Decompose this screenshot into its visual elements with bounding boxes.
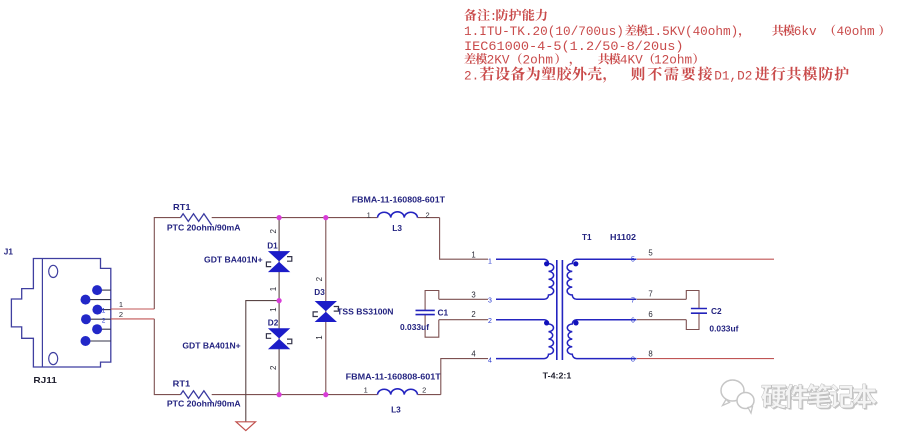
junction A (277, 215, 282, 220)
C1 bottom lead (425, 315, 439, 338)
note line 2: ITU-TK.20 (464, 24, 883, 39)
capacitor C2 (691, 309, 707, 314)
svg-text:H1102: H1102 (610, 233, 636, 242)
svg-text:0.033uf: 0.033uf (709, 323, 738, 333)
svg-text:C2: C2 (711, 306, 722, 316)
T1 core (557, 260, 563, 360)
svg-text:1: 1 (269, 286, 278, 291)
svg-text:6kv: 6kv (794, 24, 817, 39)
C2 top lead (686, 291, 699, 309)
svg-text:6: 6 (648, 310, 652, 319)
svg-text:D1: D1 (267, 241, 278, 250)
svg-text:4: 4 (471, 350, 476, 359)
svg-text:2ohm: 2ohm (523, 52, 553, 67)
svg-text:5: 5 (648, 249, 653, 258)
wire pin2 to net (111, 318, 155, 320)
svg-text:1: 1 (364, 385, 368, 394)
svg-text:1: 1 (119, 300, 123, 309)
svg-text:7: 7 (631, 297, 635, 304)
wire up to top rail (154, 218, 180, 309)
svg-text:1: 1 (471, 251, 475, 260)
T1 polarity dot right-top (573, 261, 578, 266)
svg-text:FBMA-11-160808-601T: FBMA-11-160808-601T (346, 371, 442, 381)
svg-text:1: 1 (488, 258, 492, 265)
svg-text:40ohm: 40ohm (837, 24, 875, 39)
C1 top lead (425, 291, 439, 311)
svg-text:1: 1 (315, 335, 324, 340)
capacitor C1 (416, 310, 435, 314)
wire pin7 out (637, 298, 686, 300)
junction C (277, 298, 282, 303)
svg-text:PTC 20ohm/90mA: PTC 20ohm/90mA (167, 222, 241, 232)
svg-text:T1: T1 (582, 233, 592, 242)
svg-text:2: 2 (119, 310, 123, 319)
T1 polarity dot left-bottom (544, 320, 549, 325)
T1 winding right-bottom (567, 320, 636, 359)
svg-text:J1: J1 (4, 247, 14, 256)
svg-text:GDT BA401N+: GDT BA401N+ (204, 254, 263, 264)
svg-text:2: 2 (471, 310, 475, 319)
svg-text:C1: C1 (438, 307, 449, 317)
wire pin8 out (637, 358, 774, 360)
svg-text:T-4:2:1: T-4:2:1 (543, 370, 572, 380)
svg-text:RT1: RT1 (173, 203, 191, 212)
svg-text:D1,D2: D1,D2 (714, 68, 752, 83)
svg-text:1: 1 (367, 210, 371, 219)
watermark text 硬件笔记本 (763, 385, 878, 410)
wire net3 (439, 298, 488, 300)
svg-text:2: 2 (315, 276, 324, 281)
svg-text::: : (490, 9, 498, 24)
inductor L3 (top) (378, 212, 418, 218)
svg-text:RT1: RT1 (173, 380, 191, 389)
wire pin1 to net (111, 308, 155, 310)
resistor RT1 (bottom) (181, 391, 212, 402)
svg-text:5: 5 (631, 256, 635, 263)
top rail wire (212, 217, 378, 219)
watermark icon (speech bubbles) (721, 380, 754, 413)
RJ11 pin contacts (81, 285, 111, 346)
resistor RT1 (top) (181, 214, 212, 225)
connector J1 RJ11 body (11, 259, 110, 368)
svg-text:2: 2 (269, 228, 278, 233)
wire D3 column (325, 218, 327, 395)
svg-text:3: 3 (471, 291, 475, 300)
svg-text:3: 3 (488, 297, 492, 304)
wire L3 to pin4 (441, 359, 488, 395)
svg-text:2: 2 (488, 318, 492, 325)
ground symbol (236, 422, 256, 431)
wire net2 (439, 319, 488, 321)
svg-text:RJ11: RJ11 (33, 375, 57, 385)
svg-text:PTC 20ohm/90mA: PTC 20ohm/90mA (167, 399, 241, 409)
svg-text:L3: L3 (392, 223, 402, 233)
wire to ground (246, 301, 279, 422)
junction D (277, 392, 282, 397)
svg-text:GDT BA401N+: GDT BA401N+ (182, 341, 240, 351)
bottom rail wire (212, 394, 378, 396)
svg-text:2.: 2. (464, 68, 479, 83)
C2 bottom lead (686, 313, 699, 329)
svg-text:1: 1 (102, 308, 106, 315)
GDT D1 (266, 251, 291, 271)
svg-text:1: 1 (269, 307, 278, 312)
T1 polarity dot right-bottom (573, 320, 578, 325)
wire D1 D2 column (278, 218, 280, 395)
GDT D2 (266, 329, 291, 349)
svg-text:4KV: 4KV (620, 52, 643, 67)
T1 winding left-top (496, 259, 554, 299)
T1 winding left-bottom (496, 320, 554, 359)
svg-text:2KV: 2KV (487, 52, 510, 67)
svg-text:2: 2 (102, 317, 106, 324)
svg-text:0.033uf: 0.033uf (400, 322, 429, 332)
svg-text:8: 8 (648, 350, 652, 359)
svg-text:4: 4 (488, 357, 492, 364)
svg-text:TSS BS3100N: TSS BS3100N (337, 306, 393, 316)
svg-text:FBMA-11-160808-601T: FBMA-11-160808-601T (352, 194, 446, 204)
svg-text:12ohm: 12ohm (654, 52, 692, 67)
note line 4: 差模2KV (464, 52, 696, 67)
svg-text:1.5KV(40ohm): 1.5KV(40ohm) (647, 24, 738, 39)
T1 winding right-top (567, 259, 636, 299)
junction E (323, 392, 328, 397)
note line 1: 备注:防护能力 (464, 9, 547, 24)
svg-text:6: 6 (631, 318, 635, 325)
svg-text:2: 2 (426, 210, 430, 219)
note line 5: 若设备为塑胶外壳 (464, 67, 849, 84)
svg-text:D3: D3 (314, 288, 325, 297)
wire down to bottom rail (154, 319, 180, 395)
svg-text:7: 7 (648, 290, 652, 299)
svg-text:2: 2 (422, 385, 426, 394)
svg-text:L3: L3 (391, 404, 401, 414)
wire pin5 out (637, 258, 774, 260)
inductor L3 (bottom) (378, 389, 418, 395)
svg-text:D2: D2 (268, 319, 279, 328)
wire L3 to pin1 (440, 218, 488, 260)
svg-text:8: 8 (631, 357, 635, 364)
wire pin6 out (637, 319, 686, 321)
TSS D3 (313, 301, 338, 321)
junction B (323, 215, 328, 220)
svg-text:1.ITU-TK.20(10/700us): 1.ITU-TK.20(10/700us) (464, 24, 624, 39)
svg-text:2: 2 (269, 365, 278, 370)
T1 polarity dot left-top (544, 261, 549, 266)
